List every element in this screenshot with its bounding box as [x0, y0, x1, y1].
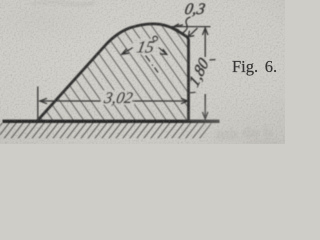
interior hatching (profile fill) [38, 24, 189, 121]
ground hatching [0, 123, 212, 138]
svg-text:0,3: 0,3 [183, 1, 206, 18]
arrow right 0,3 (to corner) [188, 28, 197, 37]
svg-text:3,02: 3,02 [102, 90, 134, 107]
dimension line 1,80 (vertical) [204, 28, 206, 57]
arrow up 1,80 [203, 28, 208, 35]
squiggle 0,3 [182, 17, 191, 34]
arrow left 0,3 [173, 24, 183, 30]
arrow left 15deg [122, 48, 133, 55]
dimension line 3,02 [40, 100, 102, 102]
profile outline [38, 24, 189, 121]
text halo 3,02 [101, 91, 135, 105]
top extension line (0,3 / 1,80) [167, 26, 211, 28]
arrow left of 3,02 [40, 98, 47, 103]
faint bleed-through ghosts [30, 2, 278, 144]
ground line [3, 120, 220, 123]
svg-text:Fig. 6.: Fig. 6. [232, 57, 277, 76]
arrow right of 3,02 [181, 98, 188, 103]
dimension 3,02 extension line [37, 87, 39, 122]
paper background [0, 0, 285, 144]
dash-dot line below 15deg [146, 56, 159, 73]
dashes at 1,80 text ends [190, 60, 216, 93]
arrow down 1,80 [203, 112, 208, 119]
arrow right 15deg [159, 48, 167, 55]
paper blotches [0, 0, 100, 45]
text halo 15deg [133, 39, 160, 54]
